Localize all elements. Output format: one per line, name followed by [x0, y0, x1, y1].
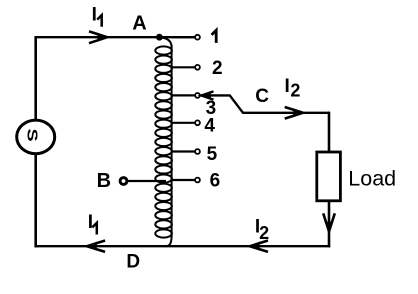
svg-text:I: I — [285, 76, 290, 97]
arrow I1 left on bottom wire — [87, 241, 105, 252]
label 6 — [210, 170, 221, 191]
label 3 — [206, 98, 217, 119]
wire tap 5 stub — [172, 150, 195, 152]
wire left vertical upper (source to top wire) — [34, 36, 37, 121]
source S (AC supply) — [17, 120, 55, 154]
label 1 — [212, 30, 217, 43]
svg-text:Load: Load — [348, 167, 396, 191]
load resistor box — [317, 152, 341, 201]
arrow I2 right on wiper wire — [285, 107, 303, 119]
label 5 — [207, 144, 218, 165]
svg-text:I: I — [92, 5, 97, 26]
svg-text:S: S — [24, 129, 41, 142]
label 2 — [212, 58, 223, 79]
tap terminal 1 — [195, 35, 200, 40]
wire left vertical lower (source to bottom wire) — [34, 154, 37, 248]
wire top from source to node A — [36, 36, 195, 38]
wire tap 1 stub — [172, 36, 195, 38]
svg-text:B: B — [97, 170, 111, 192]
wire tap 4 stub — [172, 122, 195, 124]
svg-text:I: I — [88, 212, 93, 233]
svg-text:5: 5 — [207, 144, 218, 165]
wire tap 6 stub — [172, 179, 195, 181]
wire right vertical from load to bottom wire — [328, 201, 331, 248]
svg-text:D: D — [126, 252, 140, 273]
svg-text:2: 2 — [290, 80, 300, 100]
svg-text:C: C — [255, 86, 269, 107]
wire tap 3 stub — [172, 94, 195, 96]
tap terminal 6 — [195, 178, 200, 183]
label A — [132, 13, 146, 35]
wire from terminal B to winding — [128, 180, 166, 182]
tap terminal 5 — [195, 149, 200, 154]
wire tap 2 stub — [172, 66, 195, 68]
node A junction dot — [156, 34, 163, 41]
tap terminal 2 — [195, 65, 200, 70]
arrow down from load to bottom wire — [323, 213, 335, 231]
label D — [126, 252, 140, 273]
svg-text:2: 2 — [212, 58, 223, 79]
terminal B circle — [120, 178, 127, 185]
label I1 (top) — [92, 5, 102, 27]
autotransformer winding (coil) — [155, 37, 172, 246]
label 4 — [204, 116, 215, 137]
wire right vertical from wiper to load — [328, 112, 331, 153]
arrow wiper pointing left into tap 3 — [201, 91, 213, 100]
tap terminal 4 — [195, 120, 200, 125]
wire wiper from tap 3 to C to load branch — [201, 95, 329, 112]
label I2 (bottom) — [255, 217, 269, 243]
wire bottom from right corner to source — [35, 245, 331, 247]
svg-text:6: 6 — [210, 170, 221, 191]
label Load — [348, 167, 396, 191]
arrow I2 left on bottom wire — [250, 241, 268, 252]
label I1 (bottom) — [88, 212, 97, 234]
svg-text:A: A — [132, 13, 146, 35]
label C — [255, 86, 269, 107]
label B — [97, 170, 111, 192]
arrow I1 right on top wire — [89, 31, 107, 43]
svg-text:4: 4 — [204, 116, 215, 137]
tap terminal 3 — [195, 93, 200, 98]
label I2 (top right) — [285, 76, 301, 100]
